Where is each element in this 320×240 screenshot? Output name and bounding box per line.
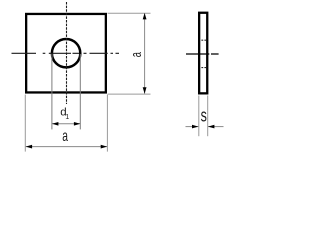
d1 extension line left (51, 54, 53, 129)
a right extension line bottom (108, 93, 151, 95)
horizontal centerline (12, 52, 120, 54)
d1 dimension line (52, 123, 80, 125)
svg-text:a: a (128, 52, 145, 57)
a bottom extension line right (106, 95, 108, 152)
vertical centerline (66, 2, 68, 104)
washer outline front view (26, 14, 106, 93)
s dimension line right (208, 126, 224, 128)
arrowhead left d1 (52, 122, 58, 126)
s dimension line left (186, 126, 199, 128)
arrowhead right bottom a (101, 145, 107, 149)
svg-text:s: s (201, 106, 207, 126)
hole circle (52, 39, 80, 67)
arrowhead right d1 (74, 122, 80, 126)
svg-text:a: a (62, 127, 68, 145)
a right extension line top (108, 12, 151, 14)
d1 extension line right (79, 54, 81, 129)
side view outline (199, 13, 207, 94)
s extension line left (198, 96, 200, 137)
a bottom extension line left (24, 95, 26, 152)
arrowhead left bottom a (26, 145, 32, 149)
a bottom dimension line (26, 146, 107, 148)
svg-text:1: 1 (65, 114, 69, 121)
s extension line right (207, 96, 209, 137)
hole hidden line bottom (201, 67, 206, 69)
arrowhead up (143, 13, 147, 19)
arrowhead down (143, 87, 147, 93)
hole hidden line top (201, 39, 206, 41)
arrowhead s left pointing right (192, 125, 198, 129)
side view horizontal centerline (186, 53, 219, 55)
a right dimension line (144, 13, 146, 93)
arrowhead s right pointing left (208, 125, 214, 129)
